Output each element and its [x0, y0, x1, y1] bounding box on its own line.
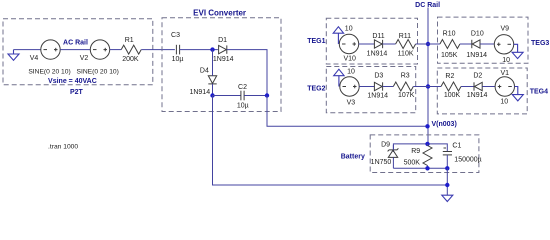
wire DC rail to R10	[428, 43, 440, 45]
svg-text:D4: D4	[200, 68, 209, 75]
svg-text:V3: V3	[347, 100, 356, 107]
svg-text:10: 10	[345, 26, 353, 33]
wire EVI output down and right to V(n003)	[267, 96, 428, 127]
P2T dashed box	[3, 19, 153, 85]
wire D1 to right rail	[227, 50, 267, 96]
wire DC rail to R2	[428, 86, 441, 88]
wire R10 to D10	[460, 43, 472, 45]
wire D4 to bottom row	[212, 84, 214, 96]
svg-text:R10: R10	[443, 30, 456, 37]
wire R3 to DC rail	[413, 86, 428, 88]
resistor R2 100K	[441, 73, 461, 99]
wire R1 to C3	[141, 49, 175, 51]
svg-text:SINE(0 20 10): SINE(0 20 10)	[28, 69, 70, 76]
voltage source V1 value 10 (plus left)	[495, 70, 514, 105]
flipped ground flag (up arrow) TEG2	[334, 69, 344, 86]
junction dot TEG2/TEG4	[426, 84, 430, 88]
svg-text:D3: D3	[374, 73, 383, 80]
TEG4 dashed box	[437, 68, 527, 114]
wire C3 to D1	[180, 49, 218, 51]
svg-text:V2: V2	[80, 55, 89, 62]
voltage source V10 value 10	[339, 26, 358, 63]
svg-text:105K: 105K	[441, 52, 458, 59]
svg-text:10: 10	[347, 69, 355, 76]
voltage source V3 value 10	[340, 69, 359, 107]
resistor R9 500K (vertical)	[404, 144, 432, 168]
wire C2 to right vertical	[244, 95, 267, 97]
svg-text:1N914: 1N914	[467, 92, 488, 99]
resistor R3 107K	[393, 73, 414, 99]
svg-text:TEG4: TEG4	[530, 89, 548, 96]
svg-text:TEG3: TEG3	[531, 40, 549, 47]
svg-text:V10: V10	[343, 56, 356, 63]
wire D10 to V9	[480, 43, 494, 45]
svg-text:R9: R9	[411, 148, 420, 155]
diode D1 1N914	[213, 37, 234, 63]
wire V4 to V2	[60, 49, 90, 51]
svg-text:Vsine = 40VAC: Vsine = 40VAC	[48, 78, 97, 85]
svg-text:AC Rail: AC Rail	[63, 40, 88, 47]
svg-text:R3: R3	[401, 73, 410, 80]
diode D2 1N914 (pointing left)	[467, 72, 488, 99]
svg-text:R2: R2	[445, 73, 454, 80]
svg-text:C3: C3	[171, 32, 180, 39]
wire R11 to DC rail	[416, 43, 428, 45]
svg-text:V1: V1	[501, 70, 510, 77]
wire V10 to D11	[359, 43, 375, 45]
junction dot battery top	[425, 142, 429, 146]
EVI dashed box	[162, 18, 281, 112]
capacitor C3 10u	[171, 32, 183, 63]
svg-text:SINE(0 20 10): SINE(0 20 10)	[77, 69, 119, 76]
wire bottom row D4 to C2	[213, 95, 241, 97]
main ground	[442, 195, 453, 201]
voltage source V2	[80, 40, 110, 62]
svg-text:1N914: 1N914	[367, 50, 388, 57]
wire D3 to R3	[383, 86, 394, 88]
svg-text:D10: D10	[471, 31, 484, 38]
junction dot bottom rail	[445, 183, 449, 187]
svg-text:D2: D2	[473, 72, 482, 79]
voltage source V4	[30, 40, 60, 62]
wire C1 bottom to ground rail	[446, 168, 448, 195]
ground (left of V4)	[8, 50, 19, 61]
junction dot D4 bottom	[210, 93, 214, 97]
wire dot to D4	[212, 50, 214, 76]
svg-text:1N914: 1N914	[466, 52, 487, 59]
battery bottom wire	[393, 167, 447, 169]
svg-text:R11: R11	[399, 33, 411, 40]
svg-text:V4: V4	[30, 55, 39, 62]
svg-text:200K: 200K	[122, 56, 139, 63]
svg-text:V9: V9	[501, 26, 510, 33]
junction dot R9 bottom	[425, 166, 429, 170]
diode D4 1N914 (vertical)	[189, 68, 216, 97]
svg-text:C1: C1	[452, 143, 461, 150]
voltage source V9 value 10 (plus left)	[494, 26, 513, 64]
zener diode D9 1N750 (cathode up)	[371, 141, 399, 168]
svg-text:1N914: 1N914	[213, 56, 234, 63]
ground TEG4	[512, 87, 523, 101]
DC rail vertical wire	[427, 8, 429, 144]
svg-text:150000µ: 150000µ	[454, 157, 481, 164]
svg-text:107K: 107K	[398, 92, 415, 99]
capacitor C1 150000u (vertical, polarized)	[443, 143, 482, 169]
svg-text:1N914: 1N914	[367, 92, 388, 99]
TEG3 dashed box	[438, 17, 529, 63]
diode D11 1N914	[367, 33, 388, 58]
wire D11 to R11	[383, 43, 396, 45]
junction dot node N001	[210, 47, 214, 51]
svg-text:110K: 110K	[398, 50, 414, 57]
svg-text:10µ: 10µ	[172, 56, 184, 63]
wire V2 to R1	[110, 49, 122, 51]
wire D4 bottom down to ground rail	[213, 96, 448, 186]
svg-text:R1: R1	[125, 37, 134, 44]
svg-text:TEG2: TEG2	[307, 85, 325, 92]
resistor R1 200K	[121, 37, 141, 63]
capacitor C2 10u	[237, 84, 249, 109]
svg-text:500K: 500K	[404, 159, 421, 166]
svg-text:V(n003): V(n003)	[432, 121, 457, 128]
svg-text:D11: D11	[372, 33, 384, 40]
svg-text:C2: C2	[238, 84, 247, 91]
svg-text:TEG1: TEG1	[307, 38, 325, 45]
Battery dashed box	[370, 135, 479, 173]
svg-text:1N750: 1N750	[371, 159, 392, 166]
svg-text:10: 10	[502, 57, 510, 64]
svg-text:10: 10	[500, 98, 508, 105]
svg-text:Battery: Battery	[341, 154, 365, 161]
svg-text:1N914: 1N914	[189, 89, 210, 96]
wire D2 to V1	[482, 86, 495, 88]
svg-text:P2T: P2T	[70, 89, 84, 96]
svg-text:100K: 100K	[444, 92, 461, 99]
wire R2 to D2	[461, 86, 474, 88]
ground TEG3	[512, 44, 523, 58]
diode D3 1N914	[367, 73, 388, 100]
junction dot TEG1/TEG3	[426, 42, 430, 46]
svg-text:10µ: 10µ	[237, 102, 249, 109]
resistor R10 105K	[440, 30, 460, 58]
battery top wire	[393, 144, 447, 152]
svg-text:.tran 1000: .tran 1000	[48, 143, 78, 150]
svg-text:D9: D9	[381, 141, 390, 148]
TEG1 dashed box	[326, 18, 417, 64]
junction dot V(n003)	[425, 124, 429, 128]
svg-text:EVI Converter: EVI Converter	[193, 8, 246, 17]
TEG2 dashed box	[326, 67, 415, 113]
resistor R11 110K	[396, 33, 416, 58]
flipped ground flag (up arrow) TEG1	[333, 27, 343, 44]
diode D10 1N914 (pointing left)	[466, 31, 487, 59]
wire ground to V4	[14, 49, 41, 51]
wire V3 to D3	[359, 86, 374, 88]
junction dot C1 bottom	[445, 166, 449, 170]
svg-text:D1: D1	[218, 37, 227, 44]
junction dot C2 right	[265, 93, 269, 97]
